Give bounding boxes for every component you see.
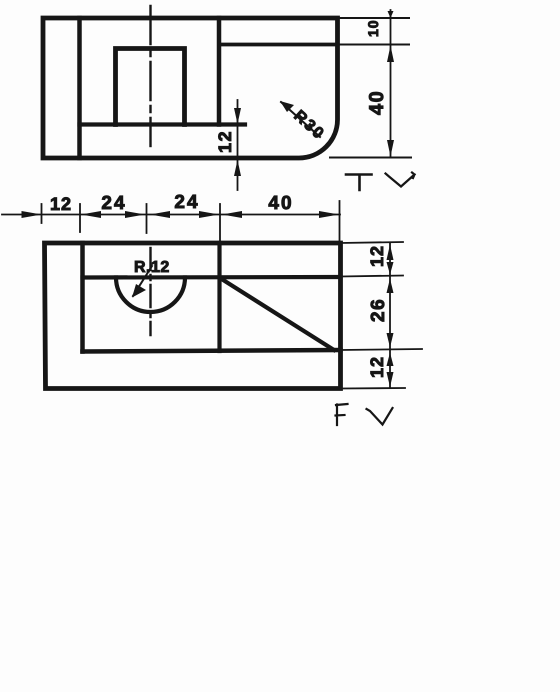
arrow down tip 387 (387, 372, 394, 387)
svg-text:12: 12 (367, 245, 387, 267)
extension line fv shelf right (341, 276, 404, 277)
top view inner slot rectangle (116, 49, 185, 125)
extension line top edge right (338, 17, 410, 19)
front view outline (45, 243, 341, 389)
arrow up tip 352 (387, 353, 394, 367)
arrow down tip 275 (387, 262, 394, 275)
arrow up tip 244 (387, 245, 394, 261)
top view outline (43, 18, 338, 158)
arrow down tip 347 (387, 333, 394, 348)
dim 12 top view extension (237, 100, 239, 158)
arrow at 18 (388, 11, 394, 18)
label V fv (367, 408, 393, 425)
front view base line (83, 350, 341, 352)
arrow up to 158 (234, 160, 241, 176)
svg-text:R.12: R.12 (134, 259, 170, 276)
extension line bottom edge right (330, 157, 411, 159)
front view chamfer diagonal (220, 278, 334, 350)
extension line fv base right (341, 349, 423, 350)
svg-text:12: 12 (50, 194, 72, 214)
radius leader R30 (281, 102, 320, 137)
arrow right tip 145 (125, 211, 145, 218)
svg-text:26: 26 (368, 298, 389, 322)
svg-text:12: 12 (215, 130, 235, 153)
extension line x146 (146, 204, 148, 233)
top view step edge vertical (217, 18, 222, 125)
top view wall edge vertical (77, 18, 82, 158)
lower pointer line (237, 159, 239, 190)
front view shelf line (83, 275, 341, 280)
label V checkmark (386, 173, 415, 187)
arrow down to 124.5 (234, 108, 241, 124)
top view centerline (149, 6, 151, 146)
extension line strip edge right (338, 44, 410, 46)
svg-text:24: 24 (174, 192, 199, 213)
arrow right tip 339 (319, 211, 339, 218)
arrow left tip 81 (81, 211, 101, 218)
leader arrowhead (280, 101, 294, 112)
extension line fv bottom right (341, 387, 406, 390)
extension line x339 (339, 201, 341, 243)
svg-text:24: 24 (101, 193, 126, 214)
extension line x220 (219, 204, 221, 243)
svg-text:R30: R30 (290, 107, 328, 143)
svg-text:10: 10 (365, 19, 381, 37)
top view bottom strip edge (80, 122, 246, 126)
front view step vertical (217, 243, 221, 351)
svg-text:40: 40 (268, 193, 293, 214)
arrow up tip 278 (387, 279, 394, 294)
dimension line right fv (389, 243, 391, 388)
arrow left tip 222 (222, 211, 242, 218)
extension line x41 (41, 204, 43, 223)
svg-text:12: 12 (367, 356, 387, 378)
arrow right tip 41.5 (22, 211, 42, 218)
front view semicircle R12 (116, 278, 185, 313)
label T (346, 175, 372, 191)
front view centerline (149, 248, 151, 335)
leader arrowhead R12 (132, 284, 146, 298)
label F (336, 404, 348, 425)
arrow left tip 150 (150, 211, 170, 218)
arrow down to 157.5 (387, 140, 394, 157)
horizontal dimension line 12/24/24/40 (2, 214, 340, 216)
dimension line 10/40 (390, 10, 392, 158)
extension line x80 (79, 204, 81, 232)
top view right strip edge (219, 43, 338, 47)
front view wall vertical (80, 243, 85, 352)
arrow up to 44.5 (387, 46, 394, 63)
arrow right tip 219 (199, 211, 219, 218)
extension line fv top right (341, 242, 404, 243)
radius leader R12 (133, 266, 152, 296)
svg-text:40: 40 (366, 90, 388, 115)
